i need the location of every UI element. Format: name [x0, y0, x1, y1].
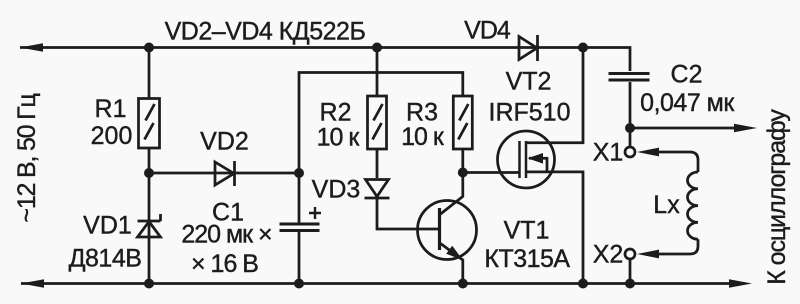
svg-text:R1: R1 — [95, 95, 127, 123]
svg-text:220 мк ×: 220 мк × — [181, 221, 271, 249]
svg-text:× 16 В: × 16 В — [191, 250, 258, 278]
svg-text:R2: R2 — [320, 99, 352, 127]
svg-text:Lx: Lx — [653, 191, 680, 219]
svg-text:VD1: VD1 — [83, 212, 132, 240]
svg-text:200: 200 — [91, 122, 133, 150]
svg-text:X1: X1 — [593, 139, 624, 167]
svg-text:VD2: VD2 — [200, 128, 249, 156]
svg-text:IRF510: IRF510 — [489, 99, 571, 127]
svg-text:Д814В: Д814В — [69, 245, 142, 273]
svg-text:VD4: VD4 — [464, 17, 511, 45]
svg-text:К осциллографу: К осциллографу — [763, 109, 791, 285]
svg-text:0,047 мк: 0,047 мк — [640, 89, 735, 117]
svg-text:~12 В, 50 Гц: ~12 В, 50 Гц — [13, 94, 41, 223]
svg-text:C2: C2 — [671, 61, 703, 89]
svg-text:КТ315А: КТ315А — [484, 245, 570, 273]
svg-text:10 к: 10 к — [401, 123, 445, 151]
svg-text:X2: X2 — [593, 241, 624, 269]
svg-text:VT1: VT1 — [504, 217, 550, 245]
svg-text:VD3: VD3 — [312, 176, 361, 204]
svg-text:VT2: VT2 — [506, 68, 552, 96]
svg-text:10 к: 10 к — [317, 124, 361, 152]
svg-text:VD2–VD4 КД522Б: VD2–VD4 КД522Б — [165, 18, 366, 46]
